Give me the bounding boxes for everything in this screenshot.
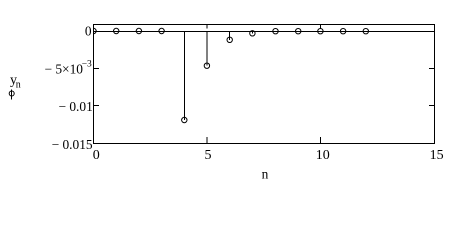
svg-text:− 0.01: − 0.01 — [58, 99, 92, 114]
y tick left at -5e-3 — [94, 68, 100, 70]
marker n=2 — [136, 28, 141, 33]
x tick top at n=5 — [206, 25, 208, 29]
svg-text:10: 10 — [316, 148, 330, 163]
stem n=4 — [183, 32, 185, 121]
marker n=8 — [273, 29, 278, 34]
svg-text:15: 15 — [430, 148, 444, 163]
y tick right at -0.01 — [429, 105, 435, 107]
svg-text:−3: −3 — [82, 60, 92, 70]
x tick top at n=10 — [320, 25, 322, 30]
svg-text:− 5×10: − 5×10 — [44, 61, 83, 76]
marker n=5 — [204, 63, 209, 68]
marker n=4 — [182, 117, 187, 122]
marker n=9 — [296, 29, 301, 34]
plot border box — [94, 25, 435, 144]
stem n=7 — [251, 32, 253, 34]
marker n=10 — [318, 29, 323, 34]
svg-text:n: n — [16, 80, 21, 91]
svg-text:5: 5 — [205, 148, 212, 163]
svg-text:− 0.015: − 0.015 — [52, 137, 93, 152]
marker n=0 — [91, 28, 96, 33]
zero axis line y=0 — [94, 31, 435, 33]
stem n=6 — [229, 32, 231, 40]
marker n=7 — [250, 31, 255, 36]
x tick bottom at n=5 — [206, 137, 208, 144]
trace legend marker circle — [9, 91, 14, 96]
marker n=1 — [114, 28, 119, 33]
y tick right at -5e-3 — [429, 68, 435, 70]
trace legend stem sample line — [11, 89, 13, 99]
marker n=12 — [363, 29, 368, 34]
marker n=3 — [159, 28, 164, 33]
svg-text:0: 0 — [85, 24, 92, 39]
stem n=5 — [206, 32, 208, 66]
svg-text:n: n — [262, 166, 269, 181]
data markers (open circles) — [91, 28, 369, 122]
marker n=6 — [227, 37, 232, 42]
x tick bottom at n=10 — [320, 137, 322, 144]
y tick left at -0.01 — [94, 105, 100, 107]
data stems — [184, 32, 252, 121]
svg-text:0: 0 — [93, 148, 100, 163]
marker n=11 — [340, 29, 345, 34]
